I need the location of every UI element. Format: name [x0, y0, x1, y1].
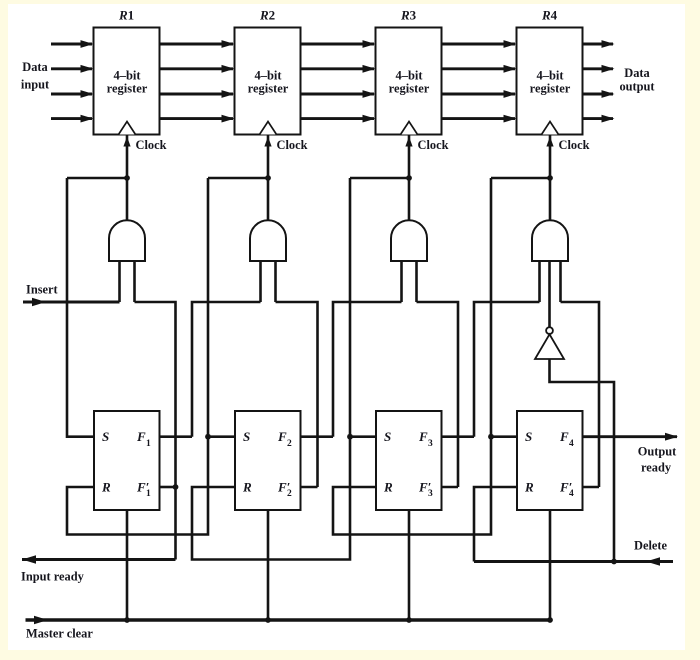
- wire junction feedback 2: [208, 177, 268, 180]
- AND gate G2: [250, 220, 286, 261]
- svg-text:Delete: Delete: [634, 539, 668, 553]
- data bus wire: [442, 90, 517, 98]
- svg-text:1: 1: [146, 439, 151, 449]
- wire junction feedback 3: [350, 177, 409, 180]
- wire clock to register R1: [123, 135, 130, 222]
- svg-text:Clock: Clock: [136, 138, 167, 152]
- data bus wire: [160, 115, 235, 123]
- node clock junction 2: [265, 175, 271, 181]
- node clock junction 3: [406, 175, 412, 181]
- wire FF3 to master clear: [408, 510, 411, 620]
- svg-text:R2: R2: [259, 8, 275, 23]
- svg-text:4–bit: 4–bit: [536, 68, 564, 82]
- AND gate G4: [532, 220, 568, 261]
- flip-flop FF4 box: [517, 411, 583, 510]
- register R2 box: [235, 8, 301, 135]
- data output wire: [583, 115, 615, 123]
- wire R1 reset from G2: [67, 437, 208, 535]
- Master clear wire: [26, 616, 551, 625]
- svg-text:4: 4: [569, 489, 574, 499]
- svg-text:Master clear: Master clear: [26, 627, 93, 641]
- svg-text:R: R: [524, 480, 534, 495]
- label Data input: [21, 60, 50, 92]
- wire F4 Output ready: [583, 433, 679, 441]
- svg-text:R4: R4: [541, 8, 558, 23]
- register R3 box: [376, 8, 442, 135]
- data input wire: [51, 40, 94, 48]
- AND gate G2 right input stub: [274, 261, 277, 302]
- AND gate G4 left input stub: [538, 261, 541, 302]
- label Insert: [26, 283, 59, 297]
- AND gate G1 left input stub: [118, 261, 121, 302]
- svg-text:R: R: [383, 480, 393, 495]
- flip-flop FF2 box: [235, 411, 301, 510]
- svg-text:S: S: [384, 429, 391, 444]
- AND gate G4 middle input stub: [548, 261, 551, 328]
- svg-text:Data: Data: [624, 66, 649, 80]
- svg-text:2: 2: [287, 489, 292, 499]
- node S2 junction: [205, 434, 211, 440]
- Insert input wire: [23, 298, 120, 307]
- wire G2 right input from F'2: [276, 302, 318, 487]
- flip-flop FF3 box: [376, 411, 442, 510]
- node master clear junction 4: [547, 617, 553, 623]
- data bus wire: [160, 40, 235, 48]
- svg-text:register: register: [248, 82, 289, 96]
- wire clock to register R2: [264, 135, 271, 222]
- wire G4 right input from F'4: [561, 302, 600, 487]
- AND gate G1: [109, 220, 145, 261]
- wire junction feedback 4: [491, 177, 550, 180]
- wire F3 to G4 left input: [474, 302, 540, 437]
- svg-text:register: register: [530, 82, 571, 96]
- data bus wire: [301, 40, 376, 48]
- data output wire: [583, 65, 615, 73]
- register R2 clock triangle: [260, 122, 277, 135]
- svg-text:Insert: Insert: [26, 283, 59, 297]
- node S3 junction: [347, 434, 353, 440]
- svg-text:Input ready: Input ready: [21, 570, 85, 584]
- node clock junction 4: [547, 175, 553, 181]
- label Output ready: [638, 445, 677, 475]
- data bus wire: [160, 90, 235, 98]
- node master clear junction 3: [406, 617, 412, 623]
- AND gate G3: [391, 220, 427, 261]
- wire junction feedback 1: [67, 177, 127, 180]
- wire clock to register R4: [546, 135, 553, 222]
- wire F'2 output: [301, 486, 318, 489]
- svg-text:R3: R3: [400, 8, 417, 23]
- node clock junction 1: [124, 175, 130, 181]
- register R4 box: [517, 8, 583, 135]
- wire F'1 to Input ready: [174, 487, 177, 560]
- flip-flop FF1 box: [94, 411, 160, 510]
- node F'1 junction: [173, 484, 179, 490]
- node master clear junction 2: [265, 617, 271, 623]
- wire F'4 output: [583, 486, 600, 489]
- data bus wire: [442, 40, 517, 48]
- wire FF4 to master clear: [549, 510, 552, 620]
- wire F2 output: [301, 435, 334, 438]
- svg-text:4: 4: [569, 439, 574, 449]
- label Clock 2: [277, 138, 308, 152]
- wire F1 to G2 left input: [192, 302, 261, 437]
- wire F3 output: [442, 435, 475, 438]
- wire FF2 to master clear: [267, 510, 270, 620]
- wire F'1 output: [160, 486, 176, 489]
- wire F1 output: [160, 435, 193, 438]
- svg-text:ready: ready: [641, 461, 672, 475]
- data input wire: [51, 90, 94, 98]
- svg-text:R1: R1: [118, 8, 134, 23]
- wire S2 set line: [208, 178, 235, 437]
- svg-text:R: R: [101, 480, 111, 495]
- svg-text:S: S: [525, 429, 532, 444]
- wire G3 right input from F'3: [417, 302, 459, 487]
- data bus wire: [442, 65, 517, 73]
- data bus wire: [301, 115, 376, 123]
- register R3 clock triangle: [401, 122, 418, 135]
- svg-text:F: F: [559, 429, 569, 444]
- wire clock to register R3: [405, 135, 412, 222]
- svg-text:register: register: [389, 82, 430, 96]
- wire FF1 to master clear: [126, 510, 129, 620]
- data output wire: [583, 40, 615, 48]
- svg-text:3: 3: [428, 439, 433, 449]
- label Clock 4: [559, 138, 590, 152]
- node Delete junction: [611, 559, 617, 565]
- wire inverter input from Delete: [550, 359, 615, 562]
- data output wire: [583, 90, 615, 98]
- svg-text:R: R: [242, 480, 252, 495]
- svg-text:4–bit: 4–bit: [254, 68, 282, 82]
- svg-text:4–bit: 4–bit: [113, 68, 141, 82]
- node S4 junction: [488, 434, 494, 440]
- svg-text:F: F: [418, 429, 428, 444]
- inverter I1: [535, 327, 564, 359]
- data input wire: [51, 115, 94, 123]
- svg-text:2: 2: [287, 439, 292, 449]
- AND gate G2 left input stub: [259, 261, 262, 302]
- svg-text:S: S: [102, 429, 109, 444]
- wire F2 to G3 left input: [333, 302, 402, 437]
- svg-text:Clock: Clock: [418, 138, 449, 152]
- svg-text:3: 3: [428, 489, 433, 499]
- wire S4 set line: [491, 178, 517, 437]
- svg-text:register: register: [107, 82, 148, 96]
- svg-text:Clock: Clock: [277, 138, 308, 152]
- AND gate G4 right input stub: [559, 261, 562, 302]
- wire R3 reset from G4: [333, 437, 491, 535]
- data input wire: [51, 65, 94, 73]
- svg-text:Output: Output: [638, 445, 677, 459]
- svg-text:F: F: [277, 429, 287, 444]
- label Input ready: [21, 570, 85, 584]
- label Delete: [634, 539, 668, 553]
- label Clock 1: [136, 138, 167, 152]
- register R4 clock triangle: [542, 122, 559, 135]
- node master clear junction 1: [124, 617, 130, 623]
- AND gate G3 left input stub: [400, 261, 403, 302]
- Input ready wire: [22, 555, 176, 564]
- svg-text:Data: Data: [22, 60, 47, 74]
- wire R2 reset from G3: [192, 437, 350, 560]
- svg-text:Clock: Clock: [559, 138, 590, 152]
- AND gate G3 right input stub: [415, 261, 418, 302]
- data bus wire: [442, 115, 517, 123]
- data bus wire: [301, 90, 376, 98]
- svg-text:4–bit: 4–bit: [395, 68, 423, 82]
- svg-text:S: S: [243, 429, 250, 444]
- svg-text:F: F: [136, 429, 146, 444]
- wire F'3 output: [442, 486, 459, 489]
- register R1 box: [94, 8, 160, 135]
- svg-text:1: 1: [146, 489, 151, 499]
- label Clock 3: [418, 138, 449, 152]
- AND gate G1 right input stub: [133, 261, 136, 302]
- data bus wire: [301, 65, 376, 73]
- label Data output: [619, 66, 655, 94]
- Delete input wire: [474, 557, 673, 566]
- wire R4 reset from Delete: [474, 487, 517, 562]
- label Master clear: [26, 627, 93, 641]
- svg-text:input: input: [21, 78, 50, 92]
- register R1 clock triangle: [119, 122, 136, 135]
- svg-text:output: output: [619, 80, 655, 94]
- wire G1 right input from F'1: [135, 302, 176, 487]
- wire S1 set line: [67, 178, 94, 437]
- wire S3 set line: [350, 178, 376, 437]
- data bus wire: [160, 65, 235, 73]
